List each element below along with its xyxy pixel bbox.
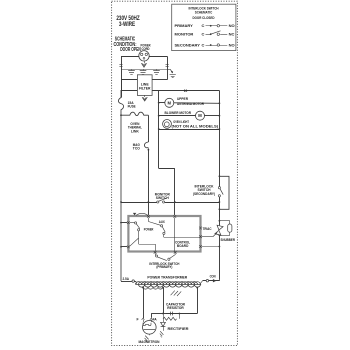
svg-text:AUX: AUX	[159, 220, 166, 224]
svg-text:TRIAC: TRIAC	[203, 227, 212, 231]
svg-text:POWER TRANSFORMER: POWER TRANSFORMER	[147, 275, 187, 279]
svg-text:UPPER: UPPER	[177, 97, 188, 101]
svg-text:BLOWER MOTOR: BLOWER MOTOR	[165, 111, 192, 115]
svg-text:LINK: LINK	[131, 129, 139, 133]
svg-text:C: C	[202, 42, 205, 47]
svg-text:M: M	[198, 113, 202, 118]
svg-text:SECONDARY: SECONDARY	[175, 42, 201, 47]
svg-text:F: F	[137, 318, 139, 322]
svg-text:MONITOR: MONITOR	[175, 32, 194, 37]
svg-text:NC: NC	[229, 32, 235, 37]
svg-text:SCHEMATIC: SCHEMATIC	[195, 10, 213, 15]
svg-text:RESISTOR: RESISTOR	[167, 306, 184, 310]
svg-text:FA: FA	[153, 318, 157, 322]
svg-text:DOOR CLOSED: DOOR CLOSED	[193, 15, 215, 20]
svg-text:CON: CON	[210, 275, 216, 279]
svg-text:CORD: CORD	[142, 47, 150, 51]
svg-text:RECTIFIER: RECTIFIER	[168, 327, 189, 331]
svg-text:FILTER: FILTER	[139, 87, 151, 91]
svg-text:NO: NO	[229, 23, 235, 28]
svg-text:NO: NO	[229, 42, 235, 47]
svg-text:POWER: POWER	[144, 228, 154, 232]
svg-text:BOARD: BOARD	[177, 244, 189, 248]
svg-text:MAGNETRON: MAGNETRON	[139, 340, 160, 344]
svg-text:2.5A: 2.5A	[122, 277, 129, 281]
svg-text:SNUBBER: SNUBBER	[221, 238, 236, 242]
svg-text:DOOR OPEN: DOOR OPEN	[120, 47, 141, 53]
svg-text:C: C	[202, 23, 205, 28]
svg-text:FUSE: FUSE	[128, 105, 136, 109]
svg-text:(PRIMARY): (PRIMARY)	[156, 265, 172, 269]
svg-text:10: 10	[184, 89, 188, 93]
svg-text:(SECONDARY): (SECONDARY)	[193, 192, 215, 196]
svg-text:3-WIRE: 3-WIRE	[119, 21, 136, 28]
svg-text:TCO: TCO	[133, 146, 140, 150]
svg-text:C: C	[202, 32, 205, 37]
svg-text:M: M	[168, 100, 172, 105]
svg-text:ANTENNA MOTOR: ANTENNA MOTOR	[177, 102, 204, 106]
svg-text:SWITCH: SWITCH	[156, 196, 169, 200]
svg-text:(NOT ON ALL MODELS): (NOT ON ALL MODELS)	[172, 124, 219, 128]
svg-text:PRIMARY: PRIMARY	[175, 23, 194, 28]
